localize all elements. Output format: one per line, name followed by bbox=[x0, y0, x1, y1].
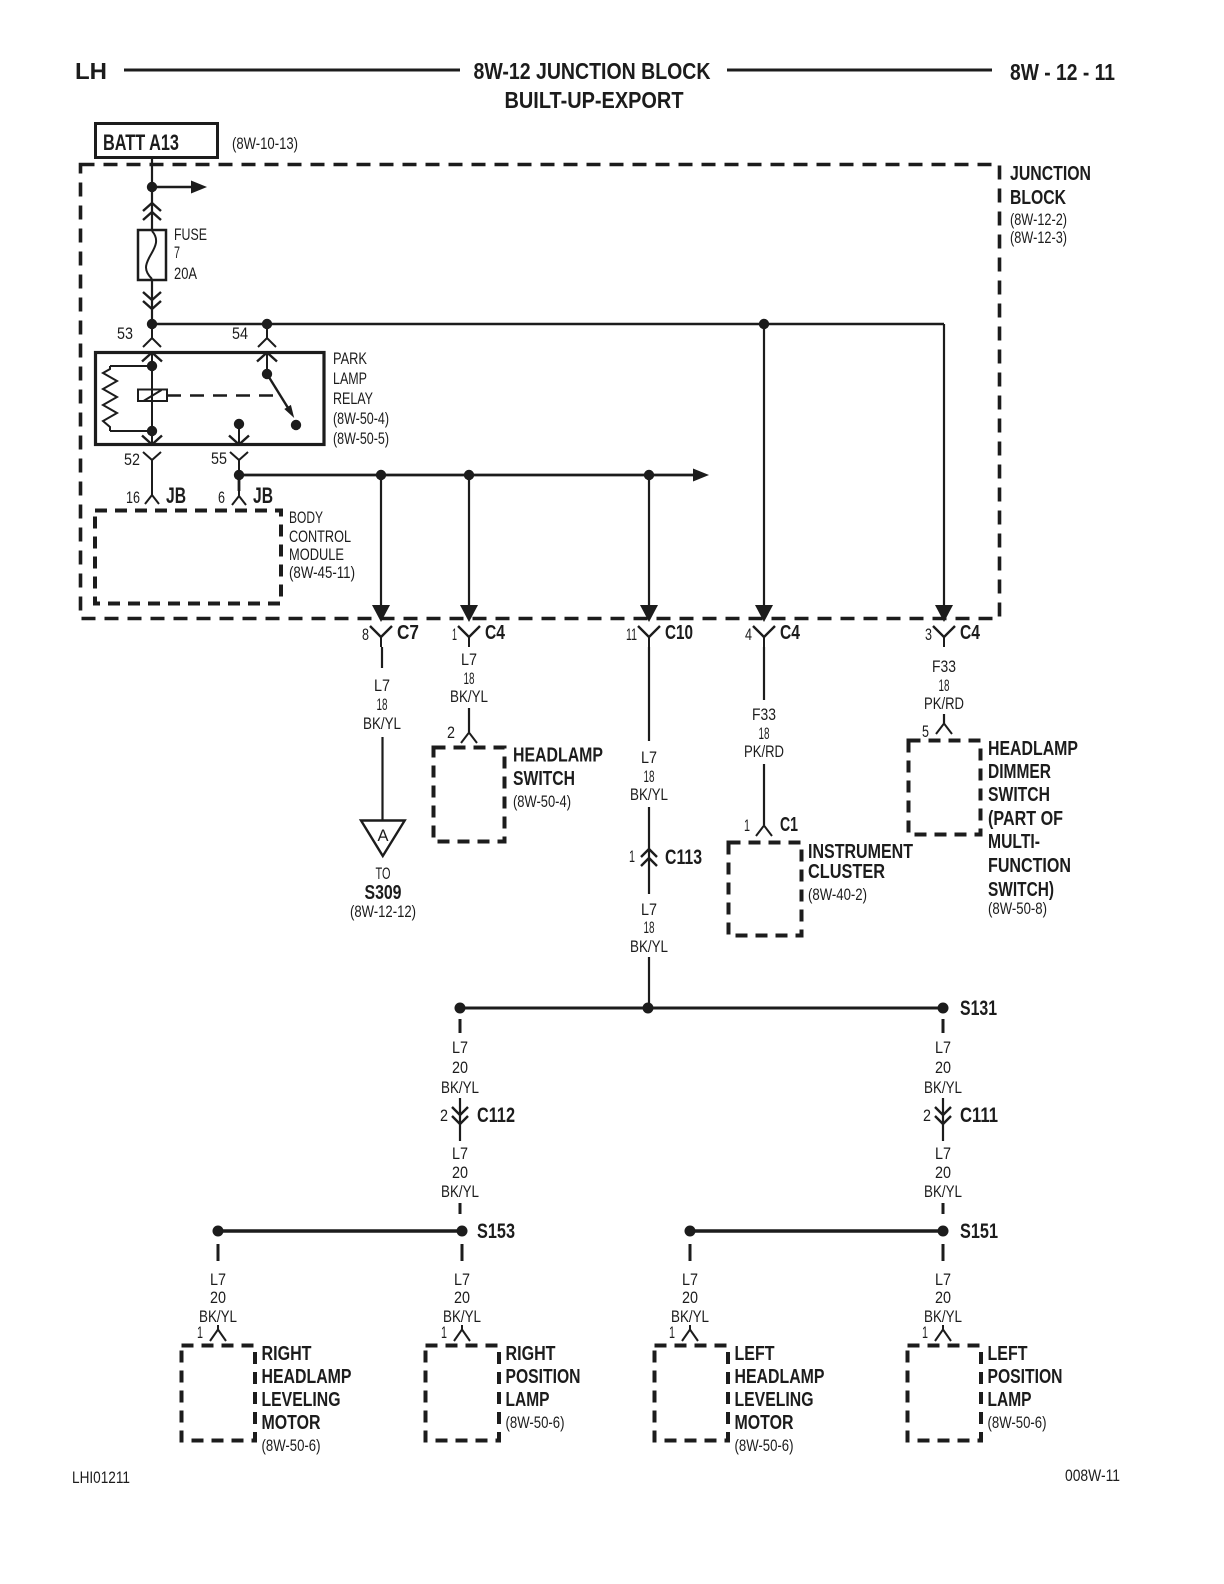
svg-text:SWITCH): SWITCH) bbox=[988, 879, 1054, 901]
svg-text:BLOCK: BLOCK bbox=[1010, 187, 1066, 209]
svg-text:MODULE: MODULE bbox=[289, 545, 344, 564]
svg-text:F33: F33 bbox=[752, 705, 776, 724]
svg-text:L7: L7 bbox=[374, 676, 390, 695]
svg-text:RELAY: RELAY bbox=[333, 389, 373, 408]
svg-text:(8W-12-2): (8W-12-2) bbox=[1010, 210, 1067, 229]
svg-text:L7: L7 bbox=[641, 748, 657, 767]
svg-text:BK/YL: BK/YL bbox=[924, 1307, 962, 1326]
svg-text:A: A bbox=[378, 826, 390, 845]
svg-text:11: 11 bbox=[626, 625, 637, 644]
svg-text:TO: TO bbox=[376, 864, 391, 883]
svg-text:20: 20 bbox=[682, 1288, 698, 1307]
svg-text:JB: JB bbox=[253, 483, 273, 508]
svg-text:PK/RD: PK/RD bbox=[744, 742, 784, 761]
svg-text:BK/YL: BK/YL bbox=[671, 1307, 709, 1326]
svg-text:S309: S309 bbox=[365, 882, 402, 904]
svg-text:16: 16 bbox=[126, 488, 140, 507]
svg-text:3: 3 bbox=[925, 625, 932, 644]
svg-text:20: 20 bbox=[935, 1163, 951, 1182]
svg-text:20: 20 bbox=[452, 1163, 468, 1182]
svg-text:PARK: PARK bbox=[333, 349, 367, 368]
svg-text:2: 2 bbox=[440, 1106, 448, 1125]
svg-text:L7: L7 bbox=[682, 1270, 698, 1289]
svg-text:BODY: BODY bbox=[289, 508, 323, 527]
svg-text:6: 6 bbox=[218, 488, 225, 507]
svg-text:1: 1 bbox=[669, 1323, 675, 1342]
svg-text:L7: L7 bbox=[210, 1270, 226, 1289]
svg-text:(8W-12-3): (8W-12-3) bbox=[1010, 228, 1067, 247]
svg-text:BK/YL: BK/YL bbox=[199, 1307, 237, 1326]
svg-text:JB: JB bbox=[166, 483, 186, 508]
svg-text:4: 4 bbox=[745, 625, 752, 644]
svg-text:C1: C1 bbox=[780, 814, 798, 836]
svg-text:FUNCTION: FUNCTION bbox=[988, 855, 1071, 877]
svg-text:BK/YL: BK/YL bbox=[443, 1307, 481, 1326]
svg-text:BK/YL: BK/YL bbox=[924, 1182, 962, 1201]
svg-text:MULTI-: MULTI- bbox=[988, 831, 1040, 853]
svg-text:20: 20 bbox=[935, 1058, 951, 1077]
svg-text:(8W-50-4): (8W-50-4) bbox=[333, 409, 389, 428]
svg-text:HEADLAMP: HEADLAMP bbox=[262, 1366, 352, 1388]
svg-text:L7: L7 bbox=[452, 1144, 468, 1163]
svg-text:LAMP: LAMP bbox=[333, 369, 367, 388]
svg-text:18: 18 bbox=[644, 918, 655, 937]
svg-text:PK/RD: PK/RD bbox=[924, 694, 964, 713]
svg-text:BK/YL: BK/YL bbox=[924, 1078, 962, 1097]
svg-text:008W-11: 008W-11 bbox=[1065, 1466, 1120, 1485]
svg-text:L7: L7 bbox=[454, 1270, 470, 1289]
svg-text:POSITION: POSITION bbox=[506, 1366, 581, 1388]
svg-text:18: 18 bbox=[939, 676, 950, 695]
svg-text:1: 1 bbox=[197, 1323, 203, 1342]
svg-text:2: 2 bbox=[923, 1106, 931, 1125]
svg-text:52: 52 bbox=[124, 450, 140, 469]
svg-text:(8W-12-12): (8W-12-12) bbox=[350, 902, 416, 921]
svg-text:LAMP: LAMP bbox=[506, 1389, 550, 1411]
svg-text:HEADLAMP: HEADLAMP bbox=[988, 738, 1078, 760]
svg-text:(8W-45-11): (8W-45-11) bbox=[289, 563, 355, 582]
svg-text:20A: 20A bbox=[174, 264, 198, 283]
svg-text:BK/YL: BK/YL bbox=[630, 937, 668, 956]
svg-text:(8W-10-13): (8W-10-13) bbox=[232, 134, 298, 153]
svg-text:C113: C113 bbox=[665, 846, 702, 869]
svg-text:BUILT-UP-EXPORT: BUILT-UP-EXPORT bbox=[505, 87, 684, 113]
svg-text:L7: L7 bbox=[935, 1038, 951, 1057]
svg-text:HEADLAMP: HEADLAMP bbox=[735, 1366, 825, 1388]
svg-text:L7: L7 bbox=[935, 1144, 951, 1163]
svg-text:C4: C4 bbox=[780, 622, 801, 644]
svg-text:POSITION: POSITION bbox=[988, 1366, 1063, 1388]
svg-text:(8W-50-8): (8W-50-8) bbox=[988, 899, 1047, 918]
svg-text:8W-12 JUNCTION BLOCK: 8W-12 JUNCTION BLOCK bbox=[474, 58, 711, 84]
svg-text:20: 20 bbox=[454, 1288, 470, 1307]
svg-text:MOTOR: MOTOR bbox=[262, 1412, 321, 1434]
svg-text:SWITCH: SWITCH bbox=[988, 784, 1050, 806]
svg-text:18: 18 bbox=[377, 695, 388, 714]
svg-text:RIGHT: RIGHT bbox=[506, 1343, 556, 1365]
svg-text:BK/YL: BK/YL bbox=[363, 714, 401, 733]
svg-text:DIMMER: DIMMER bbox=[988, 761, 1051, 783]
svg-text:54: 54 bbox=[232, 324, 248, 343]
svg-text:S131: S131 bbox=[960, 997, 997, 1020]
svg-text:C10: C10 bbox=[665, 622, 693, 644]
svg-text:8: 8 bbox=[362, 625, 369, 644]
svg-text:20: 20 bbox=[935, 1288, 951, 1307]
svg-text:BK/YL: BK/YL bbox=[450, 687, 488, 706]
svg-text:8W - 12 - 11: 8W - 12 - 11 bbox=[1010, 59, 1115, 85]
svg-text:SWITCH: SWITCH bbox=[513, 768, 575, 790]
svg-text:LHI01211: LHI01211 bbox=[72, 1468, 130, 1487]
svg-text:LEVELING: LEVELING bbox=[735, 1389, 814, 1411]
svg-text:(8W-50-6): (8W-50-6) bbox=[988, 1413, 1047, 1432]
svg-text:C111: C111 bbox=[960, 1104, 998, 1127]
svg-text:(8W-40-2): (8W-40-2) bbox=[808, 885, 867, 904]
svg-text:LEFT: LEFT bbox=[988, 1343, 1028, 1365]
svg-text:C112: C112 bbox=[477, 1104, 515, 1127]
svg-text:(8W-50-5): (8W-50-5) bbox=[333, 429, 389, 448]
svg-text:(8W-50-6): (8W-50-6) bbox=[735, 1436, 794, 1455]
svg-text:L7: L7 bbox=[641, 900, 657, 919]
svg-text:53: 53 bbox=[117, 324, 133, 343]
svg-text:CONTROL: CONTROL bbox=[289, 527, 351, 546]
svg-text:1: 1 bbox=[441, 1323, 447, 1342]
svg-text:F33: F33 bbox=[932, 657, 956, 676]
svg-text:2: 2 bbox=[447, 723, 455, 742]
svg-text:S151: S151 bbox=[960, 1220, 998, 1243]
svg-text:20: 20 bbox=[452, 1058, 468, 1077]
svg-text:S153: S153 bbox=[477, 1220, 515, 1243]
svg-text:JUNCTION: JUNCTION bbox=[1010, 163, 1091, 185]
svg-text:18: 18 bbox=[759, 724, 770, 743]
svg-text:LEVELING: LEVELING bbox=[262, 1389, 341, 1411]
svg-text:55: 55 bbox=[211, 449, 227, 468]
svg-text:L7: L7 bbox=[461, 650, 477, 669]
svg-text:MOTOR: MOTOR bbox=[735, 1412, 794, 1434]
svg-text:18: 18 bbox=[644, 767, 655, 786]
svg-text:HEADLAMP: HEADLAMP bbox=[513, 745, 603, 767]
svg-text:FUSE: FUSE bbox=[174, 225, 207, 244]
svg-text:1: 1 bbox=[452, 625, 457, 644]
svg-text:LEFT: LEFT bbox=[735, 1343, 775, 1365]
svg-text:BK/YL: BK/YL bbox=[630, 785, 668, 804]
svg-text:C4: C4 bbox=[485, 622, 506, 644]
svg-text:LH: LH bbox=[75, 58, 107, 84]
svg-text:BK/YL: BK/YL bbox=[441, 1078, 479, 1097]
svg-text:C7: C7 bbox=[397, 622, 419, 644]
svg-text:5: 5 bbox=[922, 722, 929, 741]
svg-text:7: 7 bbox=[174, 243, 180, 262]
svg-text:CLUSTER: CLUSTER bbox=[808, 861, 885, 883]
svg-text:L7: L7 bbox=[935, 1270, 951, 1289]
svg-text:(PART OF: (PART OF bbox=[988, 808, 1063, 830]
svg-text:1: 1 bbox=[744, 816, 750, 835]
svg-text:BATT A13: BATT A13 bbox=[103, 130, 179, 155]
svg-text:RIGHT: RIGHT bbox=[262, 1343, 312, 1365]
svg-text:L7: L7 bbox=[452, 1038, 468, 1057]
svg-text:(8W-50-6): (8W-50-6) bbox=[262, 1436, 321, 1455]
svg-text:LAMP: LAMP bbox=[988, 1389, 1032, 1411]
svg-text:20: 20 bbox=[210, 1288, 226, 1307]
svg-text:(8W-50-6): (8W-50-6) bbox=[506, 1413, 565, 1432]
svg-text:INSTRUMENT: INSTRUMENT bbox=[808, 841, 913, 863]
svg-text:(8W-50-4): (8W-50-4) bbox=[513, 792, 571, 811]
svg-text:C4: C4 bbox=[960, 622, 981, 644]
svg-text:BK/YL: BK/YL bbox=[441, 1182, 479, 1201]
svg-text:18: 18 bbox=[464, 669, 475, 688]
svg-text:1: 1 bbox=[922, 1323, 928, 1342]
svg-text:1: 1 bbox=[629, 847, 635, 866]
